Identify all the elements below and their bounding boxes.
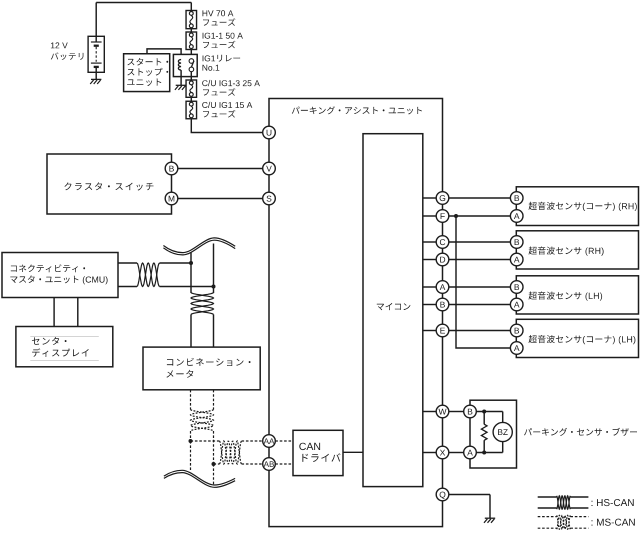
terminal B (buzzer): [464, 405, 477, 418]
wire CAN-L to junction: [160, 286, 214, 288]
fuse C/U IG1-3 25A: [186, 80, 197, 97]
wire fuse2-relay: [190, 50, 192, 59]
terminal B (sensor 3): [510, 281, 523, 294]
microcomputer box: [363, 134, 423, 487]
wire M-S: [178, 198, 262, 200]
terminal X: [436, 446, 449, 459]
junction (MS-CAN L): [212, 462, 216, 466]
label combination meter: [166, 358, 250, 378]
wire MS-CAN from meter (dashed): [191, 390, 214, 410]
terminal B: [436, 298, 449, 311]
ground (battery): [90, 79, 101, 84]
wire break squiggle (MS-CAN bus): [164, 470, 235, 487]
terminal A: [436, 281, 449, 294]
cluster switch box: [47, 154, 172, 214]
ultrasonic sensor box 2: [516, 231, 638, 269]
ultrasonic sensor box 3: [516, 276, 638, 314]
wire CMU CAN-H: [118, 262, 137, 264]
buzzer resistor: [481, 412, 487, 453]
CAN driver box: [293, 430, 343, 475]
relay IG1 No.1: [173, 54, 197, 76]
junction (CAN-H bus): [189, 261, 193, 265]
label IG1-1 50 A fuse: [203, 33, 243, 49]
wire right terminal to sensor y=304.5: [449, 304, 511, 306]
twisted pair HS-CAN (to meter): [191, 293, 214, 315]
wire microcomputer to right terminal y=304.5: [423, 304, 436, 306]
label HS-CAN: [592, 499, 634, 506]
center display inner rules: [30, 336, 99, 360]
terminal C: [436, 236, 449, 249]
terminal A (sensor 4): [510, 342, 523, 355]
wire microcomputer to right terminal y=259.5: [423, 259, 436, 261]
label 超音波センサ(コーナ) (LH): [529, 335, 636, 344]
wire CMU to center display: [54, 298, 78, 327]
terminal A (sensor 1): [510, 210, 523, 223]
terminal A (sensor 3): [510, 298, 523, 311]
CMU box: [2, 253, 118, 298]
wire CAN driver to microcomputer: [343, 451, 363, 453]
wire microcomputer to right terminal y=330.5: [423, 330, 436, 332]
wire microcomputer to right terminal y=287: [423, 286, 436, 288]
wire microcomputer to right terminal y=411.5: [423, 411, 436, 413]
label IG1 relay No.1: [203, 55, 241, 71]
wire right terminal to sensor y=216: [449, 215, 511, 217]
wire microcomputer to right terminal y=242: [423, 241, 436, 243]
wire CAN-L up to break: [213, 244, 215, 287]
twisted pair HS-CAN (CMU): [137, 263, 160, 287]
label HV 70 A fuse: [203, 10, 236, 26]
wire fuse1-fuse2: [190, 29, 192, 32]
wire F-junction down to corner sensor LH A: [456, 216, 510, 348]
wire X to buzzer A: [449, 452, 464, 454]
label microcomputer: [377, 303, 411, 310]
parking sensor buzzer box: [470, 400, 517, 468]
battery 12V: [88, 36, 104, 79]
wire CAN-H to junction: [160, 262, 192, 264]
wire break squiggle (HS-CAN bus): [163, 238, 235, 255]
terminal B (sensor 1): [510, 192, 523, 205]
wire MS-CAN to junctions (dashed): [191, 431, 214, 464]
label connectivity master unit: [10, 264, 107, 284]
label parking sensor buzzer: [524, 428, 637, 436]
label start-stop unit: [127, 58, 168, 86]
junction (buzzer B): [482, 410, 486, 414]
wire MS-CAN L to twist (dashed): [214, 463, 220, 465]
label C/U IG1-3 25 A fuse: [202, 80, 260, 96]
terminal S: [263, 192, 276, 205]
wire Q to ground: [449, 495, 490, 519]
wire CAN-L down: [213, 287, 215, 294]
terminal E: [436, 324, 449, 337]
wire right terminal to sensor y=287: [449, 286, 511, 288]
wire right terminal to sensor y=198: [449, 197, 511, 199]
wire right terminal to sensor y=259.5: [449, 259, 511, 261]
legend HS-CAN twist: [557, 496, 571, 509]
wire CAN-H down: [190, 263, 192, 293]
terminal G: [436, 192, 449, 205]
label 超音波センサ(コーナ) (RH): [529, 202, 637, 211]
junction (MS-CAN H): [189, 439, 193, 443]
wire twisted pair to combination meter: [191, 315, 214, 348]
fuse IG1-1 50A: [186, 32, 197, 50]
terminal B (sensor 2): [510, 236, 523, 249]
label cluster switch: [64, 182, 153, 190]
legend HS-CAN lines: [538, 497, 589, 508]
terminal W: [436, 405, 449, 418]
wire relay-fuse3: [190, 72, 192, 80]
wire MS-CAN H to terminal AA (dashed): [242, 440, 263, 442]
label MS-CAN: [592, 519, 635, 526]
legend MS-CAN twist: [557, 515, 571, 529]
wire MS-CAN L down to break (dashed): [213, 464, 215, 486]
terminal F: [436, 210, 449, 223]
terminal A (buzzer): [464, 446, 477, 459]
wire MS-CAN H down to break (dashed): [190, 441, 192, 472]
wire W to buzzer B: [449, 411, 464, 413]
terminal U: [263, 126, 276, 139]
fuse C/U IG1 15A: [186, 101, 197, 119]
start-stop unit box: [124, 54, 170, 92]
ultrasonic sensor box 4: [516, 319, 638, 357]
wire relay coil to ground: [180, 77, 182, 86]
fuse HV 70A: [186, 11, 197, 29]
wire microcomputer to right terminal y=452.5: [423, 452, 436, 454]
junction (CAN-L bus): [212, 285, 216, 289]
wire microcomputer to right terminal y=216: [423, 215, 436, 217]
legend MS-CAN lines: [538, 517, 589, 529]
label 超音波センサ (LH): [529, 292, 603, 301]
ultrasonic sensor box 1: [516, 187, 638, 226]
terminal AA: [263, 435, 276, 448]
twisted pair MS-CAN (vertical, dashed): [191, 410, 214, 432]
twisted pair MS-CAN (horizontal, dashed): [220, 441, 242, 464]
terminal A (sensor 2): [510, 253, 523, 266]
center display box: [16, 327, 113, 367]
buzzer internal wires: [476, 412, 502, 453]
parking assist unit box: [269, 99, 443, 527]
terminal AB: [263, 458, 276, 471]
ground (terminal Q): [484, 518, 495, 523]
wire AB to CAN driver (dashed): [275, 463, 293, 465]
wire microcomputer to right terminal y=198: [423, 197, 436, 199]
wire MS-CAN H to twist (dashed): [191, 440, 220, 442]
label CAN driver: [299, 443, 340, 462]
wire fuse4 to terminal U: [191, 119, 262, 133]
label center display: [32, 337, 89, 357]
wire start-stop to relay coil: [147, 49, 181, 60]
wire right terminal to sensor y=242: [449, 241, 511, 243]
terminal V: [263, 162, 276, 175]
label C/U IG1 15 A fuse: [202, 102, 252, 118]
label 超音波センサ (RH): [529, 247, 604, 256]
terminal B (cluster switch): [165, 162, 178, 175]
wire AA to CAN driver (dashed): [275, 440, 293, 442]
label battery: [51, 52, 84, 60]
wire fuse3-fuse4: [190, 97, 192, 101]
wire B-V: [178, 168, 262, 170]
wire MS-CAN L to terminal AB (dashed): [242, 463, 263, 465]
label 12 V: [51, 42, 68, 48]
wire right terminal to sensor y=330.5: [449, 330, 511, 332]
wire battery positive bus: [96, 3, 191, 37]
wire CAN-H up to break: [190, 253, 192, 263]
terminal B (sensor 4): [510, 324, 523, 337]
ground (IG1 relay): [175, 85, 186, 90]
junction (buzzer A): [482, 451, 486, 455]
buzzer BZ: [493, 422, 512, 441]
terminal M (cluster switch): [165, 192, 178, 205]
label parking assist unit: [292, 106, 422, 114]
wire CMU CAN-L: [118, 286, 137, 288]
terminal Q: [436, 488, 449, 501]
terminal D: [436, 253, 449, 266]
junction (terminal F): [454, 214, 458, 218]
combination meter box: [143, 347, 260, 390]
